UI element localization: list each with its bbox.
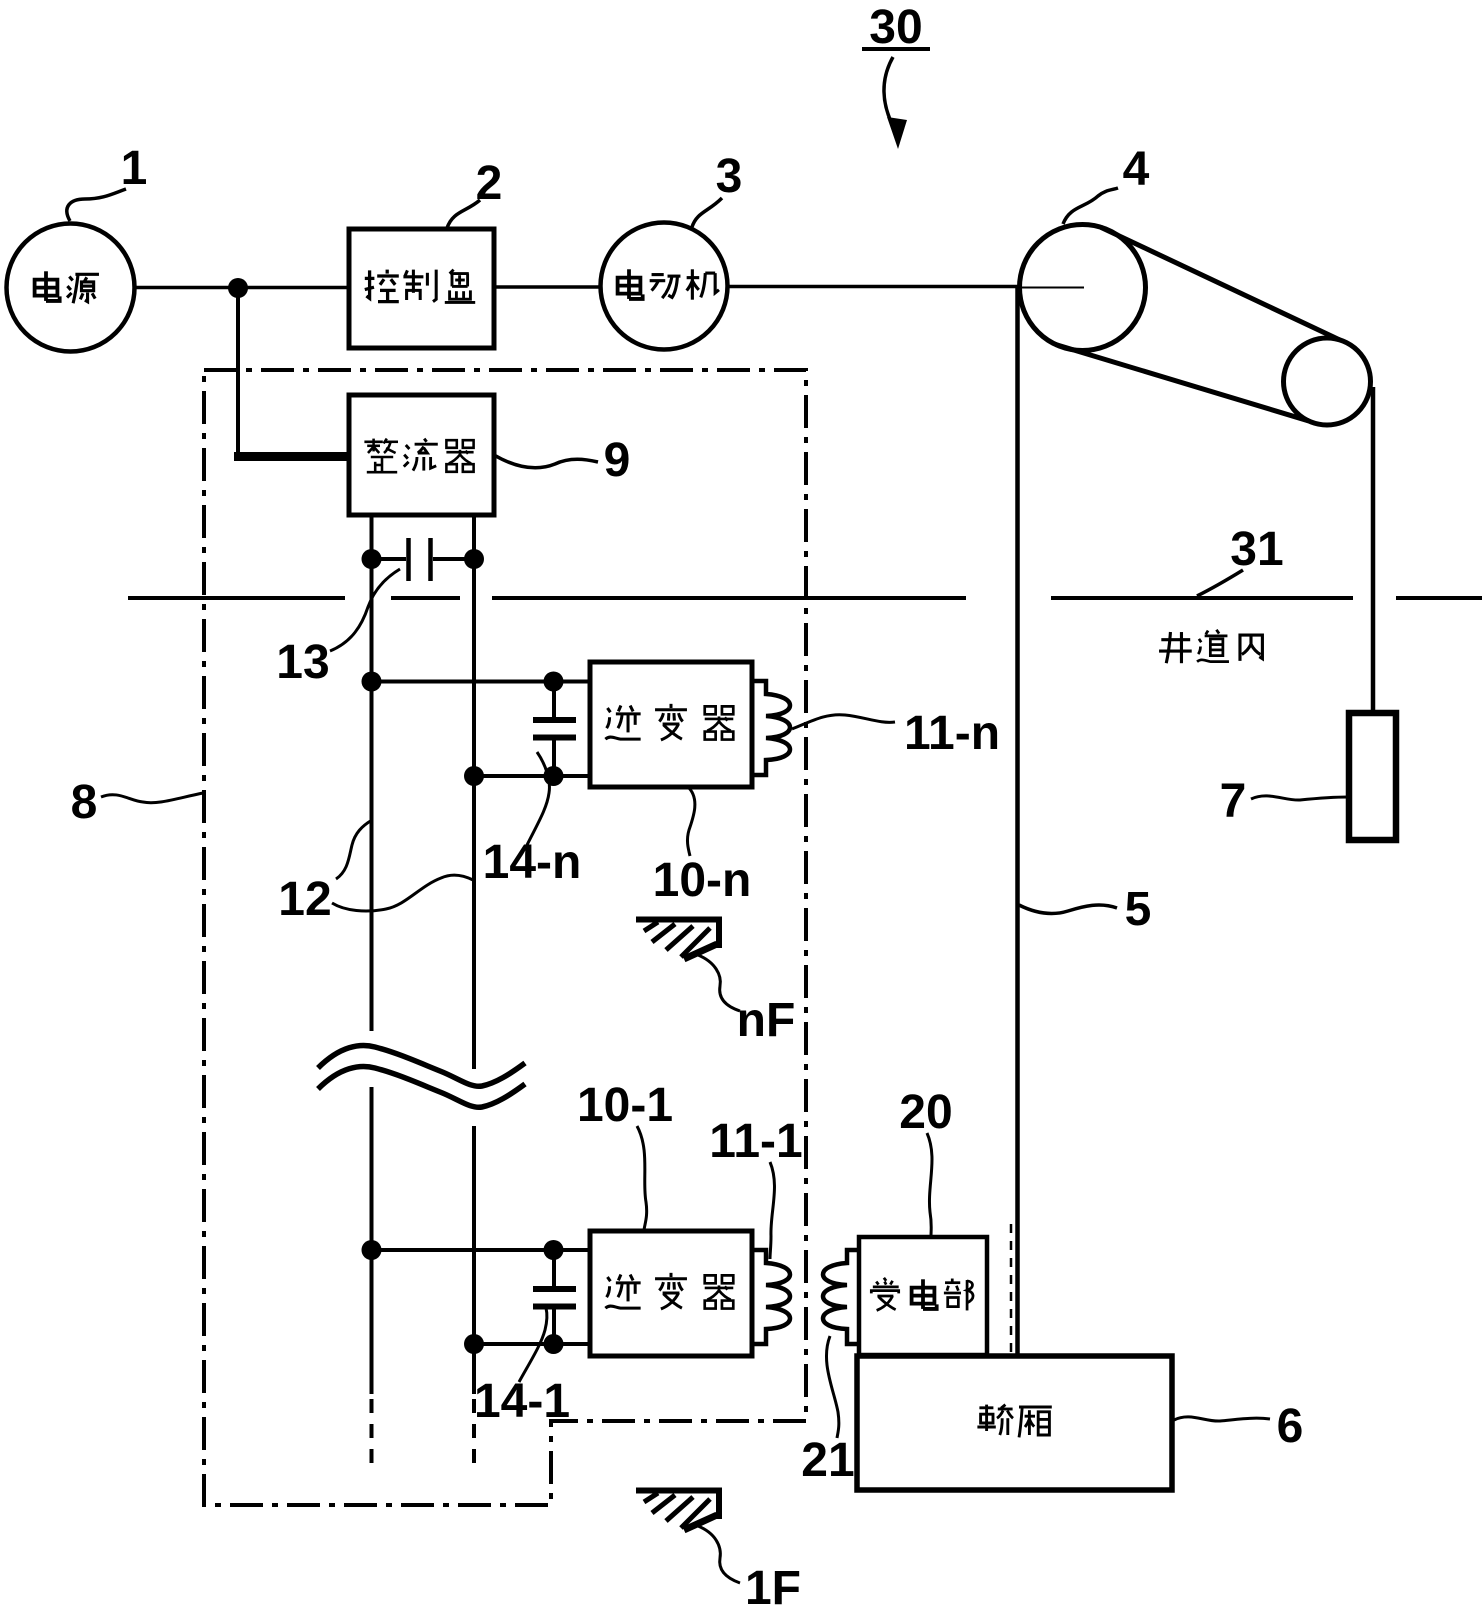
svg-text:4: 4 [1123,143,1150,196]
counterweight rope [1371,387,1376,713]
label 30 (system reference) [862,1,930,54]
traction sheave 4 (large) [1020,225,1146,351]
text nibianqi lower [605,1273,733,1309]
motor circle 3 [601,223,728,350]
svg-text:5: 5 [1125,883,1152,936]
text jingdaonei [1159,630,1262,663]
node junction [228,278,248,298]
dashed bus ends [372,1399,475,1469]
svg-text:7: 7 [1220,775,1247,828]
capacitor 13 wires [371,557,474,561]
text nibianqi upper [605,704,733,740]
leader 12 to right wire [332,875,473,911]
svg-text:30: 30 [869,1,922,54]
belt bottom line [1056,345,1309,421]
leader to label 1 [67,189,126,221]
svg-text:6: 6 [1277,1400,1304,1453]
ground symbol nF [636,917,722,959]
svg-text:11-n: 11-n [904,707,1000,760]
svg-text:9: 9 [604,434,631,487]
rope 5 [1015,287,1020,1356]
svg-text:1F: 1F [745,1562,801,1607]
svg-text:31: 31 [1230,523,1283,576]
node dots cap 13 [362,549,485,569]
wire junction down [236,288,240,452]
inverter 10-1 lower wire [474,1342,590,1346]
DC bus right wire [472,515,476,1394]
svg-text:12: 12 [278,873,331,926]
rectifier box 9 [349,395,494,515]
svg-text:20: 20 [899,1086,952,1139]
text zhengliuqi [364,439,473,473]
leader to label 9 [494,455,598,468]
inverter box 10-1 [590,1231,752,1356]
idler sheave (small) [1284,338,1371,425]
coil 11-1 [752,1250,790,1344]
leader to label 6 [1174,1417,1270,1421]
text diandongji [618,269,719,299]
counterweight 7 [1349,713,1396,840]
node dots 10-n rows [362,672,564,787]
wave break symbol [318,1045,525,1107]
leader to label 21 [826,1336,838,1438]
leader to label nF [698,955,740,1011]
svg-text:11-1: 11-1 [709,1115,802,1168]
capacitor 14-1 stubs [552,1250,556,1344]
leader to label 14-1 [519,1308,547,1382]
sheave axle line [1018,287,1084,289]
svg-text:13: 13 [276,636,329,689]
arrow from label 30 [884,57,907,149]
svg-text:14-1: 14-1 [474,1375,570,1428]
text shoudianbu [871,1278,973,1311]
DC bus left wire 12 [370,515,374,1394]
ground symbol 1F [636,1488,722,1530]
capacitor 14-n stubs [552,681,556,776]
dash-dot enclosure 8 [204,370,806,1505]
leader to label 10-1 [637,1126,647,1230]
wire power to control panel [134,286,349,290]
capacitor 14-n plates [533,720,576,738]
leader 12 to left wire [336,820,372,879]
svg-text:10-n: 10-n [653,854,752,907]
svg-text:21: 21 [801,1434,854,1487]
svg-text:10-1: 10-1 [577,1079,673,1132]
leader to label 14-n [527,752,549,845]
inverter box 10-n [590,662,752,787]
inverter 10-1 upper wire [372,1248,591,1252]
belt top line [1101,227,1340,340]
power source circle 1 [7,224,135,352]
leader to label 20 [927,1133,932,1236]
leader to label 10-n [687,788,694,856]
receiver box 20 [859,1237,987,1355]
leader to label 4 [1063,188,1118,224]
svg-text:8: 8 [71,776,98,829]
text kongzhipan [365,270,475,303]
car box 6 [857,1356,1172,1490]
coil 21 (receiver) [823,1250,859,1344]
leader to label 11-1 [770,1162,774,1259]
leader to label 5 [1019,905,1117,913]
leader to label 13 [330,569,400,651]
node dots 10-1 rows [362,1240,564,1354]
leader to label 2 [447,200,480,228]
coil 11-n [752,681,790,775]
capacitor 14-1 plates [533,1289,576,1307]
inverter 10-n upper wire [372,680,591,684]
hoistway boundary line 31 [128,596,1482,600]
leader to label 7 [1251,796,1348,800]
inverter 10-n lower wire [474,774,590,778]
svg-text:14-n: 14-n [483,836,582,889]
leader to label 8 [101,793,203,803]
leader to label 11-n [792,715,895,729]
wire motor to sheave [727,285,1018,289]
svg-text:1: 1 [121,142,148,195]
svg-text:3: 3 [716,150,743,203]
control panel box 2 [349,229,494,348]
svg-text:nF: nF [737,994,796,1047]
text jiaoxiang [977,1405,1051,1438]
leader to label 31 [1197,570,1243,596]
leader to label 3 [692,198,722,227]
text dianyuan [35,271,99,303]
wire control panel to motor [494,285,599,289]
wire thick into rectifier [234,452,349,461]
leader to label 1F [698,1526,740,1583]
capacitor 13 plates [409,538,431,581]
dashed guide beside rope [1010,1224,1013,1355]
